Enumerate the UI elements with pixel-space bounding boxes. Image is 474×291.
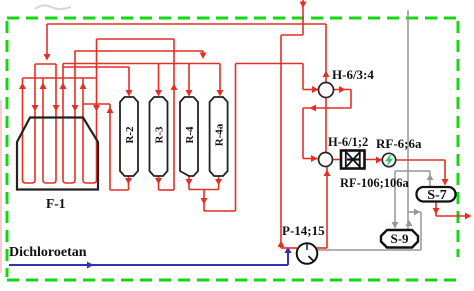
svg-text:R-4: R-4 (184, 126, 196, 144)
svg-text:R-2: R-2 (124, 126, 136, 144)
svg-text:H-6/3:4: H-6/3:4 (332, 67, 374, 82)
svg-text:Dichloroetan: Dichloroetan (9, 245, 87, 260)
svg-text:RF-106;106a: RF-106;106a (340, 176, 409, 190)
svg-text:F-1: F-1 (46, 196, 66, 211)
svg-text:R-3: R-3 (154, 126, 166, 144)
svg-text:R-4a: R-4a (214, 123, 226, 146)
svg-text:H-6/1;2: H-6/1;2 (328, 135, 368, 149)
svg-text:RF-6;6a: RF-6;6a (376, 136, 422, 151)
svg-text:S-9: S-9 (390, 231, 409, 246)
svg-text:P-14;15: P-14;15 (282, 223, 325, 238)
svg-text:S-7: S-7 (427, 188, 446, 203)
